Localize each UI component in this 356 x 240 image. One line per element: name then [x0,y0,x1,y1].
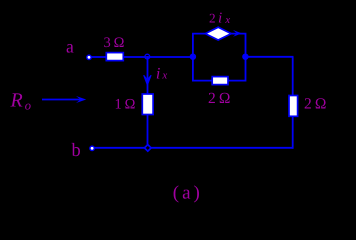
svg-text:2: 2 [209,11,216,26]
svg-text:x: x [161,70,167,82]
svg-text:3 Ω: 3 Ω [104,35,125,51]
wire: bottom wire from node b to junction diamond [94,147,145,149]
wire: 1-ohm resistor to bottom wire [147,115,149,145]
junction ring below 3-ohm output [145,54,150,59]
svg-text:i: i [218,11,222,27]
svg-text:b: b [72,140,81,161]
svg-text:o: o [25,98,31,112]
wire: dependent source to right riser [231,34,245,57]
wire: left riser to dependent source [193,34,205,57]
terminal b (open circle) [90,146,94,150]
junction dot on bottom wire [145,145,152,152]
svg-text:x: x [224,15,230,26]
junction dot right of dependent-source loop [242,54,248,60]
wire: top wire from node a to 3-ohm resistor [91,56,107,58]
wire: left drop of 2-ohm parallel branch [193,57,212,81]
svg-text:a: a [66,37,74,57]
resistor 2-ohm (horizontal box, parallel branch) [212,77,228,85]
dependent current source 2i_x (diamond) [205,27,231,40]
junction dot left of dependent-source loop [190,54,196,60]
wire: right rise of 2-ohm parallel branch [229,57,246,81]
svg-text:1 Ω: 1 Ω [115,96,136,112]
wire: bottom wire from junction diamond to right corner [151,147,294,149]
wire: junction to left loop node [147,56,193,58]
svg-text:(a): (a) [173,183,203,204]
resistor 3-ohm (horizontal box) [106,53,123,61]
wire: i_x branch vertical down to 1-ohm resistor [147,57,149,94]
arrowhead for current i_x (pointing down) [144,75,151,85]
svg-text:2 Ω: 2 Ω [208,90,230,107]
svg-text:R: R [10,90,23,112]
wire: below right 2-ohm resistor to bottom wire [292,117,294,149]
wire: right vertical drop to 2-ohm resistor [292,57,294,96]
arrow for R_o (pointing right) [42,99,82,101]
resistor 1-ohm (vertical box) [142,94,153,115]
arrowhead of dependent source (pointing right) [233,30,242,37]
wire: 3-ohm resistor to junction [124,56,148,58]
terminal a (open circle) [87,55,91,59]
wire: top wire from right loop node to right corner [245,56,293,58]
svg-text:i: i [156,65,160,82]
svg-text:2 Ω: 2 Ω [304,96,326,113]
resistor 2-ohm (vertical box, right branch) [289,96,298,117]
